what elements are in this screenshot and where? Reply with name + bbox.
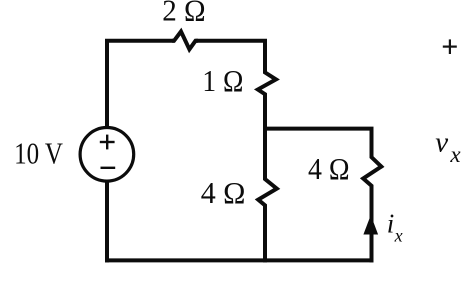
wire middle vertical mid xyxy=(263,94,267,180)
current arrowhead i_x xyxy=(363,215,378,235)
wire top horizontal right + middle vertical upper xyxy=(196,41,266,73)
wire left vertical + top horizontal left xyxy=(107,41,175,128)
wire inner horizontal + right vertical upper xyxy=(265,129,372,158)
voltage source plus sign xyxy=(100,135,115,150)
svg-text:4 Ω: 4 Ω xyxy=(201,175,246,210)
svg-text:2 Ω: 2 Ω xyxy=(162,0,205,27)
resistor R2 1 ohm zigzag xyxy=(258,70,276,96)
svg-text:4 Ω: 4 Ω xyxy=(308,151,350,186)
svg-text:i: i xyxy=(387,209,395,239)
wire right vertical lower xyxy=(370,186,374,263)
svg-text:10 V: 10 V xyxy=(14,136,63,171)
resistor R4 4 ohm right zigzag xyxy=(363,155,381,188)
svg-text:x: x xyxy=(449,142,461,167)
wire bottom horizontal xyxy=(105,258,374,262)
voltage source minus sign xyxy=(101,167,116,169)
wire middle vertical lower xyxy=(263,205,267,262)
resistor R1 2 ohm zigzag xyxy=(172,32,198,50)
label plus for vx xyxy=(443,39,457,54)
voltage source V1 circle xyxy=(80,128,134,182)
svg-text:1 Ω: 1 Ω xyxy=(202,63,243,98)
resistor R3 4 ohm middle zigzag xyxy=(258,177,277,208)
wire left vertical bottom xyxy=(105,181,109,263)
svg-text:x: x xyxy=(394,225,403,245)
svg-text:v: v xyxy=(435,127,448,159)
